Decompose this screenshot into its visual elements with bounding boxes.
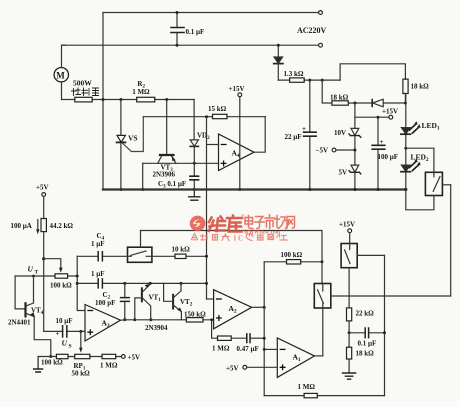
wire Us riser crossing UT line bbox=[43, 259, 45, 332]
junction 1uF line-C2 bbox=[123, 282, 126, 285]
opto box S2 bbox=[341, 244, 384, 308]
junction VT1 base-output line bbox=[133, 318, 136, 321]
zener 10V bbox=[334, 128, 361, 137]
wire AC line 2 bbox=[62, 44, 319, 46]
wire AC top line 1 bbox=[103, 12, 319, 14]
junction 1.3k-22uF bbox=[308, 79, 311, 82]
junction LED2-bus end bbox=[404, 188, 407, 191]
svg-text:10 kΩ: 10 kΩ bbox=[172, 246, 191, 254]
svg-text:AC220V: AC220V bbox=[297, 26, 327, 35]
svg-text:0.1 µF: 0.1 µF bbox=[186, 28, 205, 36]
svg-text:100 kΩ: 100 kΩ bbox=[281, 251, 303, 259]
svg-text:M: M bbox=[56, 71, 65, 81]
op-amp A4 bbox=[219, 134, 255, 171]
junction 22uF-bus bbox=[308, 188, 311, 191]
svg-text:+: + bbox=[302, 125, 306, 133]
svg-text:500W: 500W bbox=[73, 79, 92, 88]
resistor heater element bbox=[75, 97, 92, 102]
ground bottom right bbox=[343, 373, 356, 379]
junction 1uF line-VT2 collector bbox=[180, 282, 183, 285]
svg-text:100 µA: 100 µA bbox=[11, 222, 32, 230]
watermark 维库 bbox=[209, 216, 242, 232]
resistor 22k bbox=[347, 308, 375, 333]
svg-text:−5V: −5V bbox=[316, 147, 329, 155]
junction VS-bus bbox=[119, 188, 122, 191]
junction zener-bus bbox=[353, 188, 356, 191]
zener 5V bbox=[339, 165, 361, 176]
wire top link line to box4 bbox=[141, 231, 323, 262]
junction divider mid bbox=[348, 331, 351, 334]
wire bottom feedback line bbox=[264, 395, 384, 397]
wire A4 minus long riser bbox=[206, 117, 208, 299]
svg-text:+5V: +5V bbox=[128, 354, 141, 362]
junction C3-bus bbox=[193, 188, 196, 191]
svg-text:0.47 µF: 0.47 µF bbox=[237, 345, 259, 353]
resistor 10k bbox=[172, 246, 207, 259]
wire A4 output feedback riser bbox=[254, 117, 265, 153]
capacitor 22uF bbox=[285, 80, 317, 189]
potentiometer RP1 50k bbox=[72, 331, 91, 377]
svg-text:I C: I C bbox=[234, 235, 244, 243]
opto box S4 bbox=[128, 231, 152, 263]
wire A3 output line bbox=[121, 319, 214, 321]
svg-text:U: U bbox=[62, 339, 68, 348]
diode VD1 bbox=[274, 44, 283, 80]
wire 18k-left branch bbox=[322, 80, 332, 103]
wire A2 output bbox=[252, 306, 265, 308]
svg-text:+5V: +5V bbox=[226, 365, 239, 373]
junction 10k-minus riser bbox=[205, 255, 208, 258]
svg-text:1 MΩ: 1 MΩ bbox=[132, 88, 150, 96]
wire box4 to 10k bbox=[152, 255, 175, 257]
resistor 18k bottom bbox=[347, 333, 375, 373]
label 加热器 (heater) drawn glyphs bbox=[72, 88, 99, 96]
thyristor VS bbox=[117, 100, 144, 190]
svg-text:22 µF: 22 µF bbox=[285, 133, 302, 141]
junction rail-1uF bbox=[76, 282, 79, 285]
svg-text:10 µF: 10 µF bbox=[56, 317, 73, 325]
wire wiper feed bbox=[44, 259, 61, 269]
ground below bus bbox=[189, 190, 200, 201]
wire jog up to right rail bbox=[340, 64, 405, 80]
power +5V terminal RP line bbox=[121, 354, 140, 362]
svg-text:1 MΩ: 1 MΩ bbox=[100, 362, 118, 370]
resistor 1M bottom bbox=[298, 383, 318, 398]
op-amp A1 bbox=[277, 338, 314, 378]
transistor VT4 2N4401 bbox=[8, 276, 51, 357]
junction VT3line-VD2 bbox=[193, 162, 196, 165]
wire VT3 emitter line to A4 plus bbox=[143, 162, 219, 164]
LED1 bbox=[401, 94, 440, 149]
ground bus thick line bbox=[103, 188, 406, 190]
svg-text:0.1 µF: 0.1 µF bbox=[358, 339, 377, 347]
svg-text:VS: VS bbox=[128, 134, 138, 143]
svg-text:+15V: +15V bbox=[382, 108, 398, 116]
wire VT3 line down to bus bbox=[142, 163, 144, 189]
svg-text:18 kΩ: 18 kΩ bbox=[330, 94, 349, 102]
watermark logo disc bbox=[190, 216, 206, 232]
transistor VT3 2N3906 bbox=[153, 155, 177, 179]
svg-text:1 µF: 1 µF bbox=[91, 240, 105, 248]
op-amp A3 bbox=[85, 305, 121, 342]
power +15V terminal mid bbox=[355, 108, 398, 120]
diode VD2 bbox=[190, 132, 210, 164]
svg-text:150 kΩ: 150 kΩ bbox=[184, 311, 206, 319]
svg-text:5V: 5V bbox=[339, 169, 348, 177]
wire relay right riser bbox=[450, 185, 452, 296]
capacitor C1 0.1uF bbox=[171, 11, 204, 47]
capacitor C2 100pF bbox=[95, 283, 129, 319]
resistor 100k bottom bbox=[41, 354, 68, 366]
wire left vertical rail bbox=[102, 13, 104, 190]
capacitor 0.47uF bbox=[237, 334, 265, 353]
junction diode-LED rail bbox=[404, 102, 407, 105]
resistor 18k vertical right bbox=[403, 79, 429, 103]
junction heater-VT3 base bbox=[165, 98, 168, 101]
junction 100uF-bus bbox=[377, 188, 380, 191]
power +5V terminal top left bbox=[36, 184, 49, 219]
capacitor C4 1uF bbox=[77, 232, 127, 261]
junction A4 power-bus bbox=[238, 188, 241, 191]
junction 100k-box3 riser bbox=[321, 260, 324, 263]
wire VT3 base riser bbox=[166, 100, 168, 154]
power +5V terminal A1 bbox=[226, 365, 277, 373]
wire zener rail bbox=[354, 103, 356, 190]
wire A3 minus to rail bbox=[77, 256, 85, 310]
svg-text:100 kΩ: 100 kΩ bbox=[50, 281, 72, 289]
power +15V terminal A4 bbox=[229, 85, 245, 190]
resistor 1.3k bbox=[278, 70, 340, 82]
svg-text:50 kΩ: 50 kΩ bbox=[72, 370, 91, 378]
capacitor 100uF bbox=[372, 117, 398, 189]
svg-text:15 kΩ: 15 kΩ bbox=[208, 105, 227, 113]
junction emitter-divider bbox=[49, 355, 52, 358]
svg-text:2N4401: 2N4401 bbox=[8, 319, 31, 327]
junction LED rail to relay bbox=[404, 147, 407, 150]
wiper arrow pot bbox=[59, 268, 63, 273]
watermark 电子市场网 bbox=[245, 215, 295, 229]
wire mid rail x264 bbox=[263, 262, 265, 396]
capacitor C3 bbox=[190, 163, 199, 189]
potentiometer 100k bbox=[50, 274, 72, 290]
junction 1uF line-VT1 emitter bbox=[149, 282, 152, 285]
resistor 15k bbox=[208, 105, 227, 119]
transistor VT1 bbox=[135, 284, 161, 320]
motor M 500W heater bbox=[54, 45, 92, 99]
svg-text:+: + bbox=[380, 138, 384, 146]
diode D right-pointing chain bbox=[372, 99, 405, 107]
wire right rail x384 bbox=[384, 255, 386, 395]
svg-text:18 kΩ: 18 kΩ bbox=[411, 83, 430, 91]
power +15V terminal mid2 bbox=[339, 221, 355, 244]
capacitor 0.1uF bottom bbox=[349, 328, 384, 347]
capacitor 10uF bbox=[44, 317, 85, 338]
junction A2 plus riser bbox=[210, 318, 213, 321]
svg-text:22 kΩ: 22 kΩ bbox=[356, 310, 375, 318]
svg-text:1 µF: 1 µF bbox=[91, 270, 105, 278]
svg-text:+15V: +15V bbox=[339, 221, 355, 229]
svg-text:S: S bbox=[69, 344, 72, 350]
resistor 150k bbox=[184, 311, 206, 323]
junction 18kleft-zener branch bbox=[353, 102, 356, 105]
label 100uA with arrow bbox=[11, 220, 40, 235]
ground left bbox=[34, 357, 43, 373]
wire A1 minus bbox=[264, 348, 277, 350]
wire 15k feedback line bbox=[143, 116, 265, 118]
svg-text:+: + bbox=[56, 330, 60, 338]
junction UT-collector tap bbox=[32, 275, 35, 278]
terminal AC N bbox=[319, 43, 323, 47]
svg-text:100 pF: 100 pF bbox=[95, 299, 115, 307]
svg-text:+15V: +15V bbox=[229, 85, 245, 93]
junction 1uF-A2 minus riser corner bbox=[205, 282, 208, 285]
svg-text:1 MΩ: 1 MΩ bbox=[298, 383, 316, 391]
junction 1.3k-18k branch bbox=[321, 79, 324, 82]
terminal AC L bbox=[319, 11, 323, 15]
junction A2 out-rail bbox=[263, 306, 266, 309]
resistor 1M mid bbox=[212, 336, 247, 353]
LED2 bbox=[401, 148, 429, 189]
svg-text:2N3904: 2N3904 bbox=[145, 324, 168, 332]
wire A2 minus link bbox=[207, 298, 214, 300]
svg-text:+5V: +5V bbox=[36, 184, 49, 192]
power -5V terminal bbox=[316, 147, 357, 155]
resistor R2 1M bbox=[132, 80, 155, 102]
junction rail-A1 minus bbox=[263, 348, 266, 351]
junction rail-UT bbox=[76, 275, 79, 278]
wire A4 minus line bbox=[207, 144, 219, 146]
wire UT line bbox=[15, 275, 77, 277]
svg-text:1 MΩ: 1 MΩ bbox=[212, 345, 230, 353]
junction VT1 collector-output line bbox=[149, 318, 152, 321]
junction current source node bbox=[42, 257, 45, 260]
wire 100k feedback line bbox=[264, 261, 322, 263]
junction heater-rail bbox=[102, 98, 105, 101]
svg-text:100 kΩ: 100 kΩ bbox=[41, 359, 63, 367]
svg-text:100 µF: 100 µF bbox=[378, 153, 399, 161]
svg-text:2N3906: 2N3906 bbox=[153, 171, 176, 179]
svg-text:44.2 kΩ: 44.2 kΩ bbox=[50, 222, 74, 230]
junction RC-rail bbox=[263, 337, 266, 340]
wire A2 plus to RC line riser bbox=[212, 320, 218, 338]
junction VT3line-bus bbox=[141, 188, 144, 191]
wire divider line bbox=[38, 356, 121, 358]
wire A1 output riser bbox=[315, 355, 323, 357]
transistor VT2 2N3904 bbox=[145, 283, 193, 332]
svg-text:10V: 10V bbox=[334, 129, 346, 137]
capacitor 1uF second bbox=[77, 270, 206, 288]
wire heater line bbox=[62, 99, 195, 101]
wire relay top link bbox=[406, 148, 434, 172]
watermark slogan 全球最大IC采购网站 bbox=[192, 234, 230, 241]
junction 0.1uF-right rail bbox=[383, 331, 386, 334]
op-amp A2 bbox=[214, 290, 252, 329]
svg-text:18 kΩ: 18 kΩ bbox=[356, 350, 375, 358]
relay box K bbox=[406, 172, 451, 210]
junction 15k/A4 minus riser bbox=[205, 115, 208, 118]
resistor 18k left bbox=[330, 94, 372, 106]
wire R2 right to VD2 vertical bbox=[193, 100, 195, 140]
junction C2-output line bbox=[123, 318, 126, 321]
svg-text:1.3 kΩ: 1.3 kΩ bbox=[284, 70, 304, 78]
opto box S3 bbox=[314, 284, 450, 356]
svg-text:U: U bbox=[28, 265, 34, 274]
wire box3 riser bbox=[321, 262, 323, 284]
resistor 100k feedback bbox=[281, 251, 303, 264]
resistor 44.2k vertical bbox=[41, 219, 73, 259]
resistor 1M bottom left bbox=[100, 354, 118, 369]
junction RP1 wiper-plus line bbox=[79, 330, 82, 333]
junction heater-VS bbox=[119, 98, 122, 101]
svg-text:T: T bbox=[35, 270, 39, 276]
